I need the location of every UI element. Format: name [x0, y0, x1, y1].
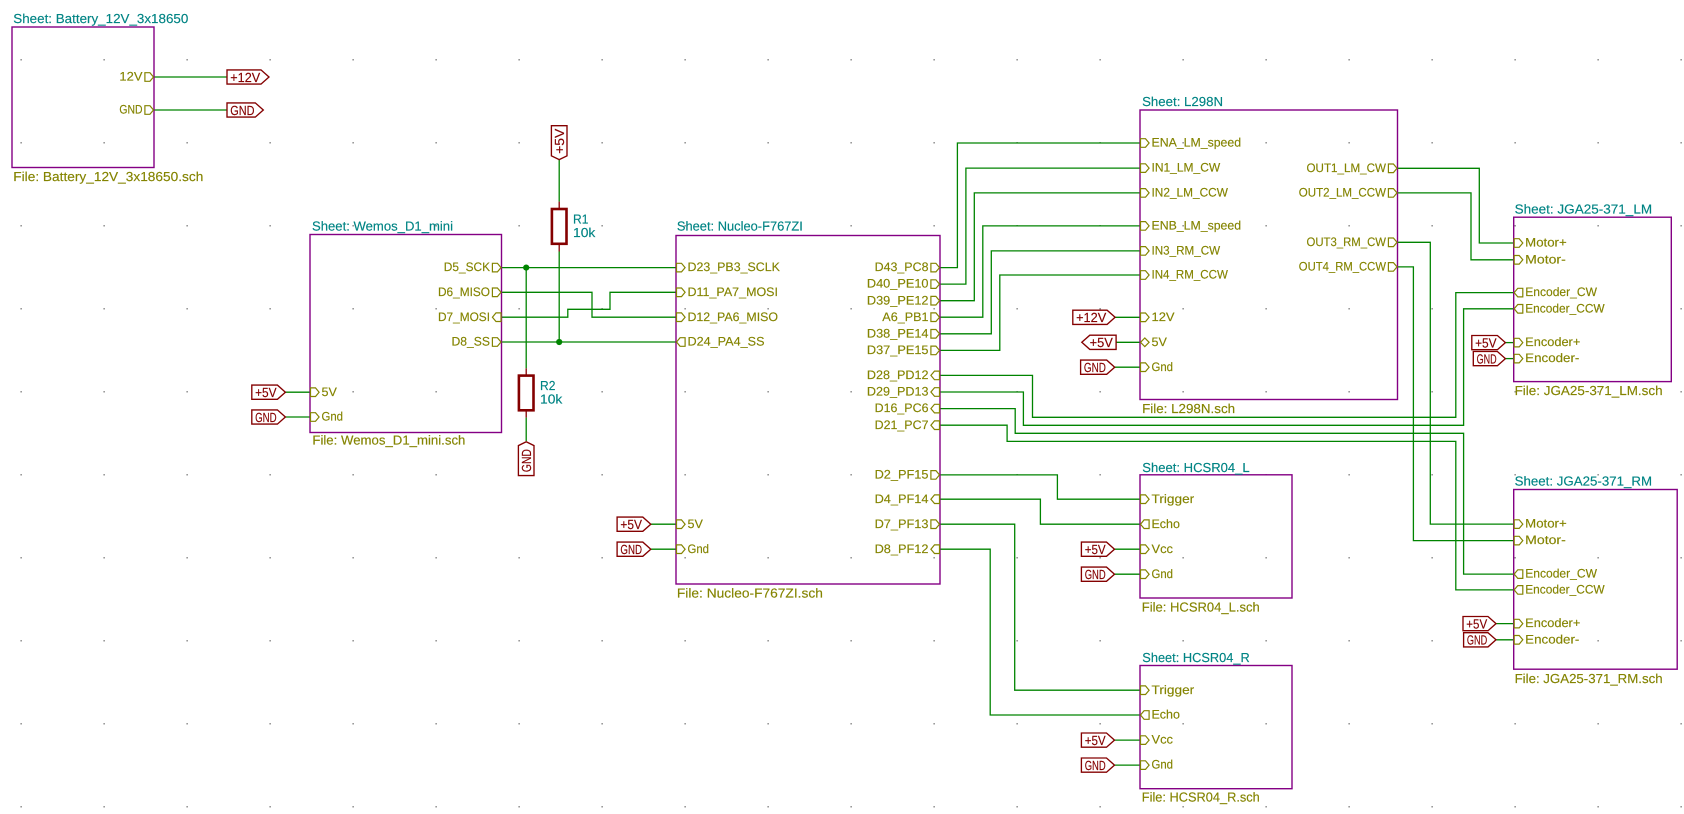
svg-text:+5V: +5V — [552, 128, 567, 153]
svg-text:OUT2_LM_CCW: OUT2_LM_CCW — [1299, 186, 1387, 200]
svg-text:+5V: +5V — [1085, 542, 1106, 557]
svg-text:Encoder_CW: Encoder_CW — [1525, 567, 1597, 581]
svg-text:File: HCSR04_L.sch: File: HCSR04_L.sch — [1142, 600, 1260, 615]
svg-text:Encoder-: Encoder- — [1525, 351, 1579, 365]
svg-text:Encoder+: Encoder+ — [1525, 335, 1580, 349]
svg-text:D28_PD12: D28_PD12 — [867, 368, 929, 382]
svg-text:IN2_LM_CCW: IN2_LM_CCW — [1152, 186, 1229, 200]
svg-text:Vcc: Vcc — [1152, 542, 1174, 556]
svg-text:Motor-: Motor- — [1525, 252, 1566, 266]
svg-text:Gnd: Gnd — [1152, 758, 1174, 772]
svg-text:File: HCSR04_R.sch: File: HCSR04_R.sch — [1142, 789, 1260, 804]
svg-text:Echo: Echo — [1152, 708, 1181, 722]
svg-text:IN3_RM_CW: IN3_RM_CW — [1152, 244, 1221, 258]
svg-text:GND: GND — [1085, 758, 1106, 773]
svg-text:File: Nucleo-F767ZI.sch: File: Nucleo-F767ZI.sch — [677, 586, 823, 601]
svg-text:D2_PF15: D2_PF15 — [875, 468, 929, 482]
svg-text:D29_PD13: D29_PD13 — [867, 385, 929, 399]
svg-text:+12V: +12V — [1076, 310, 1106, 325]
svg-text:Encoder+: Encoder+ — [1525, 616, 1580, 630]
svg-text:File: JGA25-371_LM.sch: File: JGA25-371_LM.sch — [1515, 383, 1663, 398]
svg-text:ENA_LM_speed: ENA_LM_speed — [1152, 136, 1242, 150]
svg-text:GND: GND — [1085, 567, 1106, 582]
svg-text:Gnd: Gnd — [1152, 360, 1174, 374]
svg-text:5V: 5V — [322, 385, 338, 399]
svg-text:GND: GND — [230, 103, 254, 118]
svg-text:D4_PF14: D4_PF14 — [875, 492, 929, 506]
svg-text:D37_PE15: D37_PE15 — [867, 343, 929, 357]
svg-text:D40_PE10: D40_PE10 — [867, 277, 929, 291]
svg-text:D5_SCK: D5_SCK — [444, 260, 491, 274]
svg-text:Sheet: HCSR04_L: Sheet: HCSR04_L — [1142, 460, 1249, 475]
svg-text:+5V: +5V — [1475, 335, 1497, 350]
svg-text:GND: GND — [1084, 360, 1106, 375]
svg-text:Encoder-: Encoder- — [1525, 632, 1579, 646]
svg-text:D8_PF12: D8_PF12 — [875, 542, 929, 556]
svg-text:D38_PE14: D38_PE14 — [867, 326, 929, 340]
svg-text:Gnd: Gnd — [322, 410, 344, 424]
svg-text:+5V: +5V — [1085, 733, 1106, 748]
svg-text:+12V: +12V — [230, 70, 260, 85]
svg-text:Sheet: L298N: Sheet: L298N — [1142, 94, 1223, 109]
svg-text:IN1_LM_CW: IN1_LM_CW — [1152, 161, 1221, 175]
svg-text:A6_PB1: A6_PB1 — [882, 310, 928, 324]
svg-text:Sheet: HCSR04_R: Sheet: HCSR04_R — [1142, 650, 1249, 665]
svg-text:+5V: +5V — [620, 517, 642, 532]
svg-text:GND: GND — [1477, 351, 1497, 366]
svg-text:File: L298N.sch: File: L298N.sch — [1142, 401, 1235, 416]
svg-text:D8_SS: D8_SS — [452, 335, 491, 349]
svg-text:OUT4_RM_CCW: OUT4_RM_CCW — [1299, 260, 1387, 274]
svg-text:D24_PA4_SS: D24_PA4_SS — [688, 335, 765, 349]
svg-text:GND: GND — [1467, 633, 1487, 648]
svg-text:D6_MISO: D6_MISO — [438, 285, 490, 299]
svg-text:+5V: +5V — [1090, 335, 1113, 350]
svg-text:Gnd: Gnd — [1152, 567, 1174, 581]
svg-text:GND: GND — [255, 410, 277, 425]
svg-text:+5V: +5V — [1466, 616, 1487, 631]
svg-text:Trigger: Trigger — [1152, 683, 1195, 697]
svg-text:Sheet: Battery_12V_3x18650: Sheet: Battery_12V_3x18650 — [13, 11, 188, 26]
svg-text:Encoder_CCW: Encoder_CCW — [1525, 301, 1605, 315]
svg-text:File: Wemos_D1_mini.sch: File: Wemos_D1_mini.sch — [312, 432, 465, 447]
svg-text:OUT3_RM_CW: OUT3_RM_CW — [1307, 235, 1387, 249]
svg-text:Sheet: JGA25-371_RM: Sheet: JGA25-371_RM — [1515, 474, 1653, 489]
svg-text:D7_MOSI: D7_MOSI — [438, 310, 490, 324]
svg-text:GND: GND — [119, 103, 142, 117]
svg-text:D11_PA7_MOSI: D11_PA7_MOSI — [688, 285, 779, 299]
svg-text:File: JGA25-371_RM.sch: File: JGA25-371_RM.sch — [1515, 671, 1663, 686]
svg-text:Sheet: JGA25-371_LM: Sheet: JGA25-371_LM — [1515, 201, 1653, 216]
svg-text:Vcc: Vcc — [1152, 733, 1174, 747]
svg-text:Motor+: Motor+ — [1525, 236, 1567, 250]
svg-text:+5V: +5V — [255, 385, 277, 400]
svg-text:IN4_RM_CCW: IN4_RM_CCW — [1152, 268, 1229, 282]
svg-text:Echo: Echo — [1152, 517, 1181, 531]
svg-text:12V: 12V — [1152, 310, 1176, 324]
svg-text:Sheet: Nucleo-F767ZI: Sheet: Nucleo-F767ZI — [677, 219, 803, 234]
svg-text:ENB_LM_speed: ENB_LM_speed — [1152, 219, 1242, 233]
svg-text:D39_PE12: D39_PE12 — [867, 293, 929, 307]
svg-text:D7_PF13: D7_PF13 — [875, 517, 929, 531]
svg-text:OUT1_LM_CW: OUT1_LM_CW — [1307, 161, 1387, 175]
svg-text:Encoder_CW: Encoder_CW — [1525, 285, 1597, 299]
svg-text:D16_PC6: D16_PC6 — [875, 401, 929, 415]
svg-text:5V: 5V — [688, 517, 704, 531]
svg-text:12V: 12V — [119, 70, 143, 84]
svg-text:5V: 5V — [1152, 335, 1168, 349]
svg-text:Encoder_CCW: Encoder_CCW — [1525, 583, 1605, 597]
svg-text:File: Battery_12V_3x18650.sch: File: Battery_12V_3x18650.sch — [13, 169, 203, 184]
svg-text:10k: 10k — [540, 391, 563, 406]
svg-text:10k: 10k — [573, 225, 596, 240]
svg-text:D43_PC8: D43_PC8 — [875, 260, 929, 274]
svg-text:Motor+: Motor+ — [1525, 517, 1567, 531]
svg-text:D12_PA6_MISO: D12_PA6_MISO — [688, 310, 779, 324]
svg-text:Trigger: Trigger — [1152, 492, 1195, 506]
svg-text:GND: GND — [519, 449, 534, 472]
svg-text:Gnd: Gnd — [688, 542, 710, 556]
svg-text:Sheet: Wemos_D1_mini: Sheet: Wemos_D1_mini — [312, 219, 453, 234]
svg-text:D23_PB3_SCLK: D23_PB3_SCLK — [688, 260, 781, 274]
svg-text:D21_PC7: D21_PC7 — [875, 418, 929, 432]
svg-text:Motor-: Motor- — [1525, 533, 1566, 547]
svg-text:GND: GND — [620, 542, 642, 557]
